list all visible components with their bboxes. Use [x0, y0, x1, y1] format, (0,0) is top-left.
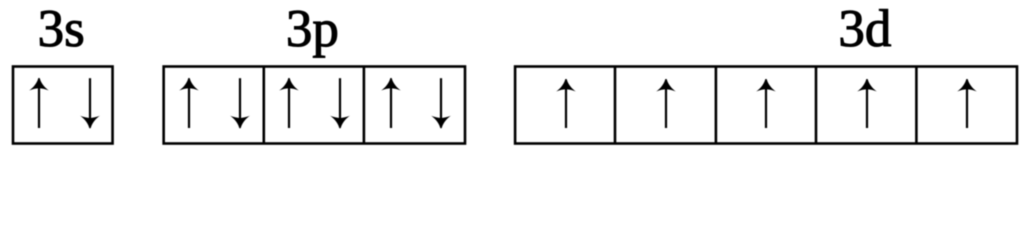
label 3p [286, 3, 339, 56]
SVG arrow definitions [0, 0, 1, 1]
3p box1 down electron arrow [230, 78, 250, 129]
label 3s [38, 3, 85, 56]
3s orbital box [13, 67, 113, 144]
3p divider 1 [262, 67, 265, 144]
3d box2 up electron arrow [656, 79, 676, 129]
3d box1 up electron arrow [556, 79, 576, 129]
label 3d [838, 3, 891, 56]
3s up electron arrow [29, 78, 49, 129]
3p orbital box group [164, 67, 465, 144]
3s down electron arrow [80, 78, 100, 129]
3d divider 4 [915, 67, 918, 144]
3p box1 up electron arrow [179, 78, 199, 129]
3d box5 up electron arrow [957, 79, 977, 129]
3p box3 up electron arrow [381, 78, 401, 129]
3d divider 2 [715, 67, 718, 144]
3d orbital box group [515, 67, 1017, 144]
3p box3 down electron arrow [431, 78, 451, 129]
3p divider 2 [363, 67, 366, 144]
3p box2 down electron arrow [330, 78, 350, 129]
orbital boxes drawing [0, 0, 1029, 153]
3p box2 up electron arrow [279, 78, 299, 129]
3d box3 up electron arrow [756, 79, 776, 129]
3d divider 3 [815, 67, 818, 144]
3d box4 up electron arrow [857, 79, 877, 129]
3d divider 1 [614, 67, 617, 144]
